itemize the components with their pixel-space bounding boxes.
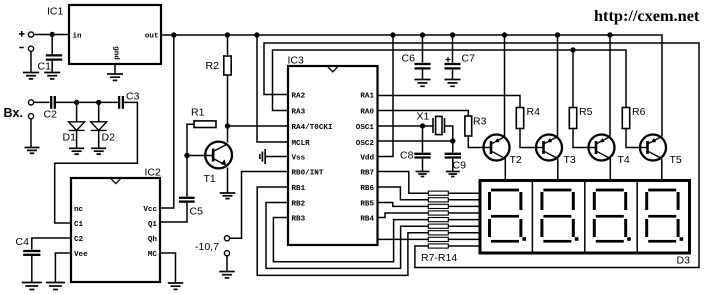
svg-text:RB4: RB4	[360, 215, 374, 223]
svg-text:C6: C6	[402, 53, 416, 65]
svg-text:C3: C3	[126, 91, 140, 103]
svg-text:T4: T4	[618, 154, 630, 166]
svg-text:D3: D3	[677, 255, 691, 267]
svg-text:R6: R6	[632, 106, 646, 118]
svg-text:http://cxem.net: http://cxem.net	[594, 6, 700, 25]
svg-text:C9: C9	[453, 160, 467, 172]
svg-text:X1: X1	[417, 111, 430, 123]
svg-text:R5: R5	[579, 106, 593, 118]
svg-text:Vdd: Vdd	[360, 154, 374, 162]
svg-text:IC1: IC1	[47, 6, 64, 18]
svg-text:-10,7: -10,7	[195, 241, 219, 253]
svg-text:C1: C1	[74, 221, 84, 229]
svg-text:C4: C4	[16, 236, 30, 248]
svg-text:RB7: RB7	[360, 169, 374, 177]
svg-text:gnd: gnd	[112, 46, 120, 60]
svg-text:R3: R3	[473, 116, 487, 128]
svg-text:C7: C7	[462, 53, 476, 65]
svg-text:C1: C1	[38, 61, 52, 73]
svg-text:C8: C8	[400, 150, 414, 162]
svg-text:Qh: Qh	[148, 236, 158, 244]
svg-text:nc: nc	[74, 206, 84, 214]
svg-text:Vee: Vee	[74, 251, 88, 259]
svg-text:Vss: Vss	[292, 154, 306, 162]
svg-text:R4: R4	[527, 106, 541, 118]
svg-text:RB5: RB5	[360, 200, 374, 208]
svg-text:C5: C5	[190, 206, 204, 218]
svg-text:C2: C2	[74, 236, 84, 244]
svg-text:D2: D2	[102, 132, 116, 144]
svg-text:OSC2: OSC2	[356, 140, 375, 148]
svg-text:T3: T3	[564, 154, 576, 166]
svg-text:RB3: RB3	[292, 215, 306, 223]
svg-text:IC3: IC3	[288, 55, 305, 67]
svg-text:IC2: IC2	[145, 167, 162, 179]
svg-text:Q1: Q1	[148, 221, 158, 229]
svg-text:R7-R14: R7-R14	[421, 252, 457, 264]
svg-text:RA4/T0CKI: RA4/T0CKI	[292, 124, 333, 132]
svg-text:RA2: RA2	[292, 92, 306, 100]
svg-text:D1: D1	[63, 132, 77, 144]
svg-text:R2: R2	[206, 60, 220, 72]
svg-text:RB1: RB1	[292, 185, 306, 193]
svg-text:MCLR: MCLR	[292, 140, 311, 148]
svg-text:OSC1: OSC1	[356, 124, 375, 132]
svg-text:RA1: RA1	[360, 92, 374, 100]
svg-text:T1: T1	[204, 173, 216, 185]
svg-text:RA3: RA3	[292, 108, 306, 116]
svg-text:RB0/INT: RB0/INT	[292, 169, 324, 177]
svg-text:RB6: RB6	[360, 185, 374, 193]
svg-text:Bx.: Bx.	[4, 106, 23, 120]
svg-text:R1: R1	[191, 107, 205, 119]
svg-text:Vcc: Vcc	[143, 206, 157, 214]
svg-text:T2: T2	[510, 154, 522, 166]
svg-text:C2: C2	[44, 109, 58, 121]
svg-text:RA0: RA0	[360, 108, 374, 116]
svg-text:in: in	[73, 33, 83, 41]
svg-text:RB2: RB2	[292, 200, 306, 208]
svg-text:MC: MC	[148, 251, 158, 259]
svg-text:out: out	[145, 33, 159, 41]
svg-text:T5: T5	[670, 154, 682, 166]
